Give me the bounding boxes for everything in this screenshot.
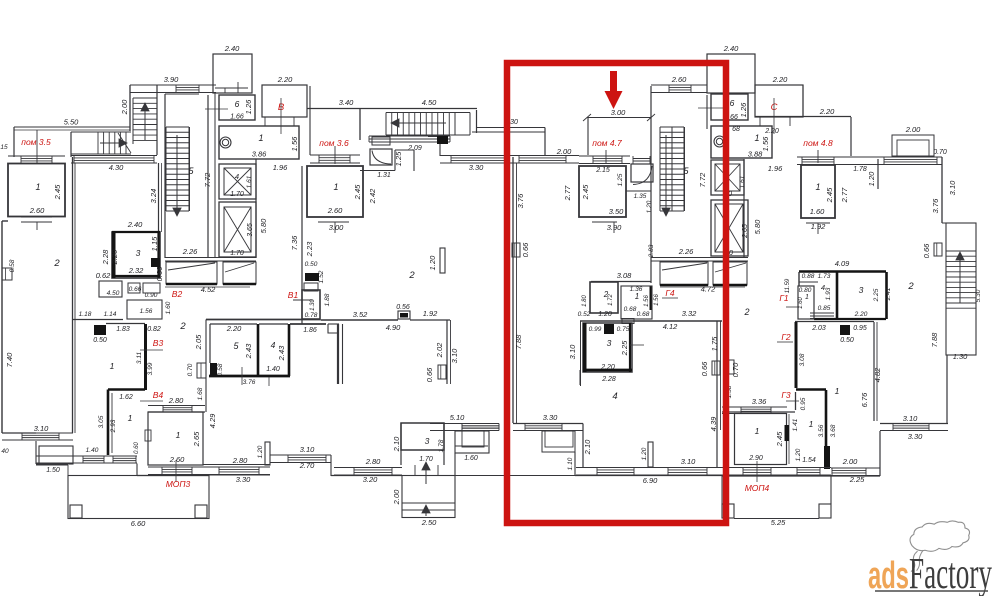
svg-text:2.03: 2.03: [811, 325, 826, 332]
bottom band of core left: [165, 257, 256, 259]
svg-text:1.20: 1.20: [598, 311, 612, 318]
svg-text:3.20: 3.20: [363, 475, 378, 484]
room 1 3.88 right washbasin: [711, 126, 772, 158]
svg-text:40: 40: [1, 448, 9, 455]
svg-text:0.62: 0.62: [96, 271, 111, 280]
svg-text:3.10: 3.10: [300, 445, 315, 454]
pom 4.8 bottom-right walls: [880, 423, 948, 425]
svg-text:2.80: 2.80: [232, 456, 248, 465]
svg-text:1.25: 1.25: [617, 173, 624, 186]
svg-text:1.70: 1.70: [230, 191, 244, 198]
svg-text:2.05: 2.05: [194, 334, 203, 350]
svg-text:2.00: 2.00: [556, 147, 572, 156]
svg-text:2.65: 2.65: [742, 224, 749, 239]
apartment label pom 4.7: [605, 150, 607, 164]
top wall window 2.60: [651, 84, 707, 86]
svg-text:3.40: 3.40: [339, 98, 354, 107]
svg-text:5.50: 5.50: [64, 118, 79, 127]
watermark underline: [875, 590, 988, 592]
hall right wall with window 0.66: [446, 320, 448, 384]
svg-text:0.99: 0.99: [589, 326, 602, 333]
svg-text:3.10: 3.10: [903, 414, 918, 423]
svg-text:2: 2: [408, 270, 415, 281]
fixtures below bathroom: [99, 281, 122, 297]
svg-text:0.70: 0.70: [731, 362, 740, 377]
svg-text:1.68: 1.68: [197, 387, 204, 400]
svg-text:1.52: 1.52: [318, 270, 325, 283]
svg-text:7.36: 7.36: [290, 235, 299, 250]
svg-text:1.92: 1.92: [423, 309, 438, 318]
svg-text:2.02: 2.02: [435, 342, 444, 358]
svg-text:2.50: 2.50: [421, 518, 437, 527]
svg-text:3.76: 3.76: [931, 198, 940, 213]
svg-text:1.60: 1.60: [810, 207, 825, 216]
room 1 3.86 left with washbasin: [219, 126, 299, 159]
svg-text:7.88: 7.88: [514, 334, 523, 349]
wall 3.40-4.50 top: [307, 108, 477, 110]
door swing to hall: [328, 324, 339, 333]
svg-text:5.80: 5.80: [753, 219, 762, 234]
exterior band with windows 3.30 / 2.00: [440, 155, 513, 157]
svg-text:4.50: 4.50: [107, 290, 120, 297]
svg-text:3.52: 3.52: [353, 310, 368, 319]
svg-text:1.50: 1.50: [46, 467, 60, 474]
svg-text:0.66: 0.66: [155, 266, 164, 281]
svg-text:2.20: 2.20: [277, 75, 293, 84]
svg-text:0.66: 0.66: [521, 242, 530, 257]
room 1 of pom 3.5: [8, 164, 65, 217]
pillar 1.20 bottom: [648, 442, 653, 467]
balcony pom 4.7: [542, 431, 575, 452]
shaft room 6 right: [711, 94, 748, 120]
svg-text:4.90: 4.90: [386, 323, 401, 332]
svg-text:0.66: 0.66: [129, 286, 142, 293]
svg-text:4.12: 4.12: [663, 322, 678, 331]
corridor wall x302: [301, 166, 303, 324]
svg-text:3.10: 3.10: [568, 344, 577, 359]
building outline top-left stair block: [130, 84, 216, 86]
svg-text:0.66: 0.66: [425, 367, 434, 382]
svg-text:ads: ads: [868, 555, 909, 596]
svg-text:2: 2: [907, 281, 914, 292]
svg-text:2.09: 2.09: [407, 145, 422, 152]
svg-text:6: 6: [235, 99, 240, 109]
apartment B4 wall: [108, 388, 145, 391]
svg-text:2.20: 2.20: [819, 107, 835, 116]
svg-text:1.20: 1.20: [428, 255, 437, 270]
svg-text:2.77: 2.77: [563, 185, 572, 201]
svg-text:0.58: 0.58: [9, 259, 16, 272]
svg-text:Г3: Г3: [781, 390, 791, 400]
svg-text:1.56: 1.56: [761, 136, 770, 151]
svg-text:пом 4.8: пом 4.8: [803, 138, 833, 148]
corridor wall near door: [290, 323, 326, 325]
svg-text:2.00: 2.00: [392, 489, 401, 505]
svg-text:0.50: 0.50: [93, 337, 107, 344]
svg-text:2: 2: [179, 321, 186, 332]
svg-text:0.90: 0.90: [145, 292, 158, 299]
svg-text:1: 1: [258, 133, 263, 143]
main stair core right: [660, 126, 684, 128]
svg-text:3.90: 3.90: [164, 75, 179, 84]
svg-text:0.50: 0.50: [840, 337, 854, 344]
svg-text:0.68: 0.68: [624, 306, 637, 313]
svg-text:В3: В3: [153, 338, 164, 348]
window 0.66 pom 4.7 right: [712, 361, 720, 375]
svg-text:1.35: 1.35: [634, 193, 647, 200]
svg-text:7.40: 7.40: [5, 352, 14, 367]
svg-text:2.40: 2.40: [224, 44, 240, 53]
pom 4.7 bottom-left zigzag: [513, 423, 583, 425]
core walls right: [650, 86, 652, 283]
bottom middle window 5.10: [430, 423, 499, 425]
svg-text:0.78: 0.78: [305, 312, 318, 319]
wall 4.90 and pillar: [337, 324, 339, 384]
svg-text:3: 3: [136, 248, 141, 258]
svg-text:1.26: 1.26: [739, 102, 748, 117]
svg-text:1.20: 1.20: [795, 448, 802, 461]
room 2 right wall: [158, 163, 160, 232]
svg-text:1: 1: [128, 413, 133, 423]
svg-text:2.42: 2.42: [368, 188, 377, 204]
svg-text:2.90: 2.90: [748, 455, 763, 462]
svg-text:2.45: 2.45: [53, 184, 62, 200]
svg-text:1.20: 1.20: [257, 445, 264, 458]
bottom wall right with windows: [722, 475, 880, 477]
svg-text:2.43: 2.43: [244, 343, 253, 359]
left outer wall: [1, 221, 3, 433]
svg-text:5.10: 5.10: [450, 413, 465, 422]
svg-text:1.56: 1.56: [140, 308, 153, 315]
room 1 sill: [21, 216, 52, 218]
top main stair horizontal flight: [385, 113, 387, 136]
svg-text:2.20: 2.20: [772, 75, 788, 84]
shower corner left unit: [370, 149, 392, 165]
svg-text:1.60: 1.60: [798, 297, 804, 309]
svg-text:6: 6: [730, 98, 735, 108]
svg-text:3.00: 3.00: [611, 108, 626, 117]
svg-text:1.61: 1.61: [739, 175, 746, 188]
svg-text:2.80: 2.80: [365, 457, 381, 466]
svg-text:1.70: 1.70: [230, 250, 244, 257]
svg-text:3.10: 3.10: [948, 180, 957, 195]
svg-text:4: 4: [271, 340, 276, 350]
svg-text:0.95: 0.95: [800, 397, 807, 410]
svg-text:1.15: 1.15: [150, 236, 159, 251]
svg-text:0.56: 0.56: [396, 304, 410, 311]
svg-text:2.00: 2.00: [842, 457, 858, 466]
svg-text:6.76: 6.76: [860, 392, 869, 407]
svg-text:2.41: 2.41: [885, 287, 892, 301]
svg-text:2.23: 2.23: [305, 241, 314, 257]
svg-text:2.45: 2.45: [825, 187, 834, 203]
svg-text:2.93: 2.93: [110, 419, 117, 433]
svg-text:0.70: 0.70: [933, 149, 947, 156]
pom 4.8 room 1: [797, 156, 840, 158]
svg-text:1.20: 1.20: [646, 200, 653, 213]
svg-text:5.30: 5.30: [975, 289, 982, 302]
svg-text:2.00: 2.00: [905, 125, 921, 134]
svg-text:1.26: 1.26: [244, 99, 253, 114]
svg-text:3.00: 3.00: [329, 223, 344, 232]
step wall right of stair: [476, 110, 478, 133]
svg-text:пом 3.6: пом 3.6: [319, 138, 349, 148]
pom 4.8 room 1 bottom-left: [735, 414, 787, 465]
shaft 0.56: [398, 311, 410, 319]
svg-text:1.20: 1.20: [641, 447, 648, 460]
svg-text:2.60: 2.60: [169, 455, 185, 464]
svg-text:1.56: 1.56: [644, 295, 650, 307]
svg-text:1.10: 1.10: [567, 457, 574, 470]
svg-text:2.77: 2.77: [840, 187, 849, 203]
elevator shafts left: [255, 159, 257, 258]
svg-text:0.80: 0.80: [799, 287, 812, 294]
svg-text:0.60: 0.60: [134, 442, 140, 454]
svg-text:1.40: 1.40: [86, 447, 99, 454]
svg-text:1.56: 1.56: [290, 136, 299, 151]
svg-text:4.72: 4.72: [701, 285, 716, 294]
svg-text:В4: В4: [153, 390, 164, 400]
entry ramps right: [660, 262, 708, 285]
hall top wall right 3.32: [580, 320, 722, 322]
svg-text:1.54: 1.54: [802, 457, 816, 464]
svg-text:1: 1: [110, 361, 115, 371]
svg-text:1.41: 1.41: [792, 418, 799, 431]
svg-text:1: 1: [176, 430, 181, 440]
svg-text:1.75: 1.75: [710, 336, 719, 351]
svg-text:2.15: 2.15: [595, 167, 610, 174]
room 3 center-left: [401, 423, 444, 450]
svg-text:2.45: 2.45: [581, 184, 590, 200]
svg-text:1.88: 1.88: [324, 293, 331, 306]
svg-text:2: 2: [53, 258, 60, 269]
svg-text:4.52: 4.52: [201, 285, 216, 294]
svg-text:5.25: 5.25: [771, 518, 786, 527]
svg-text:15: 15: [0, 144, 8, 151]
pom 4.7 top window band: [513, 155, 579, 157]
pom 4.7 bottom wall 6.90: [575, 475, 722, 477]
svg-text:2.26: 2.26: [182, 247, 198, 256]
svg-text:1: 1: [635, 292, 639, 301]
svg-text:1: 1: [809, 419, 814, 429]
svg-text:1: 1: [754, 133, 759, 143]
svg-text:1.61: 1.61: [246, 175, 253, 188]
window 0.58 on left wall: [2, 268, 12, 280]
svg-text:Г2: Г2: [781, 332, 791, 342]
svg-text:0.50: 0.50: [305, 261, 318, 268]
shower niche bottom wall: [626, 190, 651, 192]
svg-text:1.78: 1.78: [438, 439, 445, 452]
svg-text:2.32: 2.32: [128, 266, 144, 275]
svg-text:2.25: 2.25: [620, 340, 629, 356]
svg-text:1.60: 1.60: [464, 455, 478, 462]
svg-text:3.08: 3.08: [617, 271, 632, 280]
svg-text:3.99: 3.99: [147, 362, 154, 375]
svg-text:5.80: 5.80: [259, 218, 268, 233]
svg-text:1: 1: [35, 182, 40, 192]
svg-text:1.14: 1.14: [104, 311, 117, 318]
pom 4.7 room 1: [579, 155, 630, 157]
svg-text:1.62: 1.62: [119, 394, 133, 401]
svg-text:1.93: 1.93: [825, 287, 832, 300]
svg-text:МОП3: МОП3: [166, 479, 191, 489]
svg-text:1.73: 1.73: [818, 273, 831, 280]
wall corridor 5.50: [14, 126, 130, 128]
right tower 2.40: [707, 54, 755, 93]
window 0.66 right wall: [934, 243, 942, 256]
red highlight rectangle: [507, 63, 726, 523]
hall top wall 3.52: [321, 319, 399, 321]
svg-text:68: 68: [732, 126, 740, 133]
apartment B3 wall: [144, 324, 147, 390]
svg-text:3.32: 3.32: [682, 309, 697, 318]
room V vestibule: [262, 85, 307, 117]
svg-text:3.24: 3.24: [149, 189, 158, 204]
svg-text:7.72: 7.72: [203, 172, 212, 187]
pom 4.7 storage rooms: [591, 281, 651, 283]
svg-text:4.39: 4.39: [709, 416, 718, 431]
corridor window 4.30: [71, 155, 157, 157]
pom 3.6 room 1: [310, 154, 360, 156]
svg-text:0.88: 0.88: [802, 273, 815, 280]
svg-text:2.60: 2.60: [29, 206, 45, 215]
svg-text:1: 1: [755, 426, 760, 436]
svg-text:2.40: 2.40: [723, 44, 739, 53]
svg-text:3.30: 3.30: [236, 475, 251, 484]
svg-text:1.83: 1.83: [116, 326, 130, 333]
svg-text:3.56: 3.56: [818, 424, 825, 437]
svg-text:2.80: 2.80: [168, 396, 184, 405]
svg-text:3.10: 3.10: [450, 348, 459, 363]
stair landing lines: [369, 135, 450, 137]
svg-text:1.18: 1.18: [79, 311, 92, 318]
svg-text:1.78: 1.78: [853, 166, 867, 173]
svg-text:1: 1: [333, 182, 338, 192]
svg-text:2.20: 2.20: [600, 364, 615, 371]
apartment label pom 3.5: [36, 130, 38, 164]
svg-text:1.56: 1.56: [654, 294, 660, 306]
pom 4.8 left wall lower: [722, 411, 795, 413]
svg-text:2.28: 2.28: [101, 249, 110, 265]
pom 3.6 room 5: [205, 320, 207, 413]
svg-text:3.30: 3.30: [469, 163, 484, 172]
room 1 of pom 3.5 window: [8, 155, 65, 157]
svg-text:4.30: 4.30: [109, 163, 124, 172]
svg-text:1.60: 1.60: [165, 301, 172, 314]
svg-text:4: 4: [235, 172, 239, 181]
red arrow: [605, 71, 623, 109]
stairwell small flight up: [133, 97, 157, 99]
svg-text:В1: В1: [288, 290, 299, 300]
svg-text:2.10: 2.10: [583, 439, 592, 455]
window 0.66 pom 4.7 left: [512, 243, 520, 257]
bottom wall left with windows: [36, 455, 137, 457]
bottom wall segment 2.80/3.30: [207, 474, 270, 476]
shaft room 6 left: [219, 95, 255, 120]
svg-text:1.20: 1.20: [867, 171, 876, 186]
small top rooms above corridor: [127, 300, 162, 319]
svg-text:0.75: 0.75: [617, 326, 630, 333]
svg-text:0.58: 0.58: [217, 363, 224, 376]
balcony 2.00 top right: [892, 135, 934, 156]
svg-text:2.40: 2.40: [127, 220, 143, 229]
svg-text:3.76: 3.76: [243, 379, 256, 386]
window 0.70 right of red: [726, 360, 734, 374]
svg-text:3.30: 3.30: [543, 413, 558, 422]
svg-text:0.52: 0.52: [578, 311, 591, 318]
svg-text:1.66: 1.66: [230, 114, 244, 121]
balcony left of center: [455, 431, 489, 453]
porch left 6.60: [68, 476, 209, 519]
svg-text:1.31: 1.31: [377, 172, 391, 179]
svg-text:2: 2: [743, 307, 749, 317]
svg-text:1.86: 1.86: [303, 327, 317, 334]
stairwell lower flight: [97, 132, 99, 154]
svg-text:МОП4: МОП4: [745, 483, 770, 493]
svg-text:3.88: 3.88: [748, 150, 763, 159]
raised segment 3.10/2.70: [270, 454, 331, 456]
main stair core left: [164, 94, 166, 258]
svg-text:3.50: 3.50: [609, 207, 624, 216]
top right window band 0.70: [840, 156, 942, 158]
svg-text:2.60: 2.60: [671, 75, 687, 84]
wall left of rooms 6 and 1: [214, 93, 216, 258]
svg-text:3: 3: [425, 436, 430, 446]
room C vestibule: [755, 85, 803, 117]
svg-text:2.20: 2.20: [110, 249, 119, 265]
svg-text:В2: В2: [172, 289, 183, 299]
pom 4.7 bathroom 3: [583, 323, 632, 372]
svg-text:0.68: 0.68: [637, 311, 650, 318]
porch right 5.25: [721, 476, 723, 504]
svg-text:0.82: 0.82: [147, 326, 161, 333]
svg-text:66: 66: [730, 114, 738, 121]
svg-text:1.80: 1.80: [582, 295, 588, 307]
svg-text:30: 30: [510, 119, 518, 126]
svg-text:4: 4: [612, 391, 617, 402]
svg-text:3: 3: [859, 285, 864, 295]
svg-text:Г4: Г4: [665, 288, 675, 298]
svg-text:пом 3.5: пом 3.5: [21, 137, 51, 147]
svg-text:0.85: 0.85: [818, 305, 831, 312]
vestibule bottom-left: [2, 432, 36, 434]
svg-text:3.76: 3.76: [516, 193, 525, 208]
svg-text:4.29: 4.29: [208, 413, 217, 428]
svg-text:3.68: 3.68: [830, 424, 837, 437]
svg-text:2.20: 2.20: [764, 128, 779, 135]
svg-text:1.70: 1.70: [419, 456, 433, 463]
svg-text:6.90: 6.90: [643, 476, 658, 485]
svg-text:3: 3: [607, 338, 612, 348]
svg-text:7.88: 7.88: [930, 332, 939, 347]
bottom wall segment 2.80/3.20: [331, 475, 402, 477]
svg-text:0.66: 0.66: [700, 361, 709, 376]
svg-text:0.66: 0.66: [922, 243, 931, 258]
window band 1.60 upper: [455, 445, 488, 447]
svg-text:1.40: 1.40: [266, 366, 280, 373]
svg-text:2.26: 2.26: [678, 247, 694, 256]
elevators right: [743, 159, 745, 258]
right exterior wall: [941, 157, 943, 223]
central porch 2.50: [402, 476, 455, 518]
wall 2.20 right of C: [802, 85, 804, 117]
left tower 2.40: [213, 54, 252, 93]
svg-text:2.28: 2.28: [601, 376, 616, 383]
lower rooms near MOP3: [148, 411, 205, 413]
pom 3.5 / 3.6 party wall: [72, 157, 74, 433]
apartment label pom 3.6: [334, 146, 336, 164]
svg-text:3.08: 3.08: [799, 353, 806, 366]
